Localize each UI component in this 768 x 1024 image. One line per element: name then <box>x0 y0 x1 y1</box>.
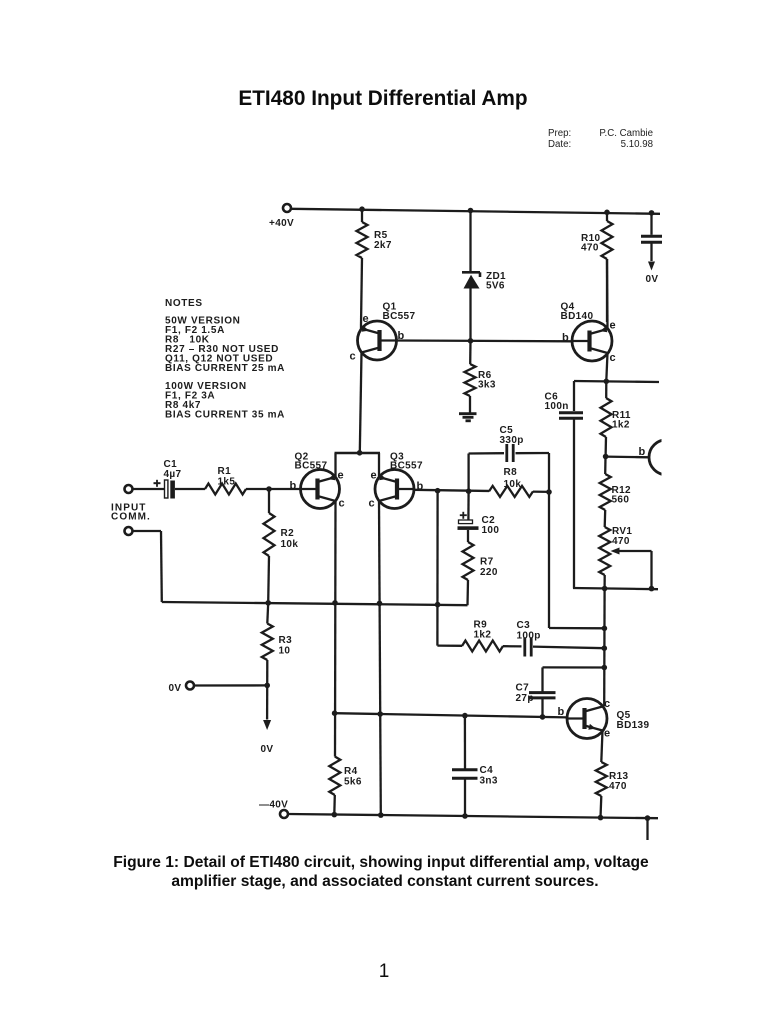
svg-text:+40V: +40V <box>269 218 294 229</box>
svg-text:1k2: 1k2 <box>612 420 630 431</box>
svg-text:10k: 10k <box>281 539 299 550</box>
svg-text:100p: 100p <box>517 631 541 642</box>
svg-text:c: c <box>604 698 610 710</box>
svg-text:C3: C3 <box>517 620 531 631</box>
svg-text:100n: 100n <box>545 401 569 412</box>
svg-text:b: b <box>558 706 565 718</box>
svg-text:0V: 0V <box>261 744 274 755</box>
svg-text:b: b <box>639 446 646 458</box>
svg-text:1k5: 1k5 <box>218 477 236 488</box>
svg-text:C7: C7 <box>516 683 530 694</box>
svg-text:P.C. Cambie: P.C. Cambie <box>599 128 653 139</box>
svg-text:R8: R8 <box>504 467 518 478</box>
svg-text:BC557: BC557 <box>383 311 416 322</box>
svg-text:10: 10 <box>279 646 291 657</box>
svg-text:470: 470 <box>612 536 630 547</box>
svg-text:R1: R1 <box>218 466 232 477</box>
svg-text:5k6: 5k6 <box>344 777 362 788</box>
svg-text:0V: 0V <box>169 683 182 694</box>
svg-text:R7: R7 <box>480 557 494 568</box>
svg-text:560: 560 <box>612 495 630 506</box>
svg-text:—40V: —40V <box>259 800 288 811</box>
svg-text:100: 100 <box>482 525 500 536</box>
svg-text:e: e <box>363 313 369 325</box>
svg-text:COMM.: COMM. <box>111 512 151 523</box>
svg-text:NOTES: NOTES <box>165 298 203 309</box>
svg-text:e: e <box>338 470 344 482</box>
svg-text:e: e <box>371 470 377 482</box>
svg-text:b: b <box>290 480 297 492</box>
svg-text:BIAS CURRENT 35 mA: BIAS CURRENT 35 mA <box>165 410 285 421</box>
svg-text:c: c <box>350 351 356 363</box>
svg-text:1k2: 1k2 <box>474 630 492 641</box>
svg-text:c: c <box>339 498 345 510</box>
svg-text:amplifier stage, and associate: amplifier stage, and associated constant… <box>171 873 598 890</box>
svg-text:470: 470 <box>581 243 599 254</box>
svg-text:0V: 0V <box>646 274 659 285</box>
svg-text:5V6: 5V6 <box>486 281 505 292</box>
svg-text:e: e <box>610 320 616 332</box>
svg-text:R4: R4 <box>344 766 358 777</box>
svg-text:BD140: BD140 <box>561 311 594 322</box>
svg-text:220: 220 <box>480 567 498 578</box>
svg-text:330p: 330p <box>500 435 524 446</box>
svg-text:c: c <box>369 498 375 510</box>
svg-text:3n3: 3n3 <box>480 776 498 787</box>
svg-text:c: c <box>610 352 616 364</box>
svg-text:Figure 1: Detail of ETI480 cir: Figure 1: Detail of ETI480 circuit, show… <box>113 854 649 871</box>
svg-text:5.10.98: 5.10.98 <box>621 139 653 150</box>
svg-text:BC557: BC557 <box>390 461 423 472</box>
svg-text:Date:: Date: <box>548 139 571 150</box>
svg-text:C4: C4 <box>480 765 494 776</box>
svg-text:2k7: 2k7 <box>374 240 392 251</box>
svg-text:BD139: BD139 <box>617 720 650 731</box>
svg-text:27p: 27p <box>516 693 534 704</box>
svg-text:BC557: BC557 <box>295 461 328 472</box>
svg-text:10k: 10k <box>504 479 522 490</box>
svg-text:4µ7: 4µ7 <box>164 469 182 480</box>
svg-text:3k3: 3k3 <box>478 380 496 391</box>
svg-text:e: e <box>604 728 610 740</box>
svg-text:b: b <box>562 332 569 344</box>
svg-text:ETI480 Input Differential Amp: ETI480 Input Differential Amp <box>238 87 527 110</box>
svg-text:R3: R3 <box>279 635 293 646</box>
svg-text:1: 1 <box>379 961 390 982</box>
svg-text:470: 470 <box>609 781 627 792</box>
svg-text:R2: R2 <box>281 528 295 539</box>
svg-text:BIAS CURRENT 25 mA: BIAS CURRENT 25 mA <box>165 363 285 374</box>
svg-text:Prep:: Prep: <box>548 128 571 139</box>
